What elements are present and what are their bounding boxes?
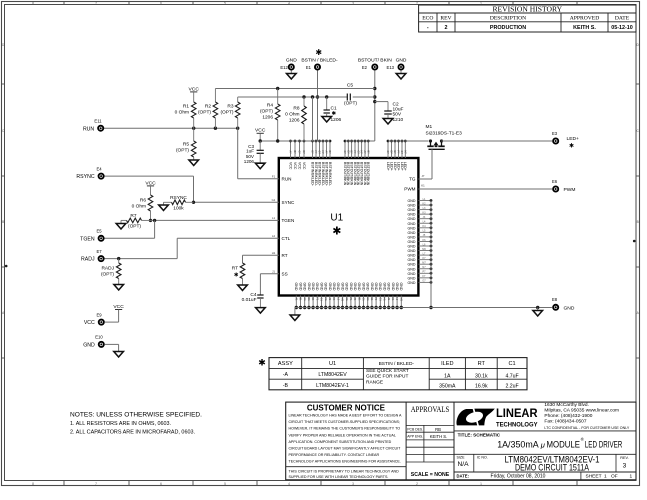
svg-text:J1: J1 xyxy=(272,270,275,274)
svg-text:GND: GND xyxy=(408,226,416,230)
svg-text:RT: RT xyxy=(282,253,288,258)
svg-text:HOWEVER, IT REMAINS THE CUSTOM: HOWEVER, IT REMAINS THE CUSTOMER'S RESPO… xyxy=(289,426,401,431)
ground symbol near E8 xyxy=(533,311,543,317)
svg-text:GND: GND xyxy=(340,283,344,291)
svg-text:R5: R5 xyxy=(183,142,189,148)
svg-text:GND: GND xyxy=(391,283,395,291)
svg-text:REVISION HISTORY: REVISION HISTORY xyxy=(492,4,562,13)
svg-text:LED DRIVER: LED DRIVER xyxy=(585,439,623,450)
svg-text:SCALE = NONE: SCALE = NONE xyxy=(411,472,450,478)
approvals box xyxy=(406,402,454,480)
svg-text:G1: G1 xyxy=(320,298,323,302)
svg-text:H1: H1 xyxy=(272,251,276,255)
svg-text:GND: GND xyxy=(408,231,416,235)
svg-text:GND: GND xyxy=(382,283,386,291)
svg-text:DATE: DATE xyxy=(615,16,630,22)
title row xyxy=(454,431,636,450)
svg-text:RSYNC: RSYNC xyxy=(76,174,94,180)
svg-text:350mA: 350mA xyxy=(439,383,456,389)
svg-text:GND: GND xyxy=(408,217,416,221)
svg-text:VCC: VCC xyxy=(302,162,306,170)
svg-text:BSTIN / BKLED-: BSTIN / BKLED- xyxy=(301,58,338,64)
wire riser BSTIN rail to pins xyxy=(312,97,314,141)
svg-text:SIZE: SIZE xyxy=(457,456,466,460)
wire LED+ rail to M1 xyxy=(388,140,429,142)
svg-text:50V: 50V xyxy=(246,154,255,159)
svg-text:GND: GND xyxy=(328,283,332,291)
svg-text:B: B xyxy=(2,220,4,224)
svg-text:SHEET: SHEET xyxy=(586,473,602,479)
svg-text:E11: E11 xyxy=(94,119,102,124)
ground symbol below E13 xyxy=(396,71,406,80)
svg-text:CUSTOMER NOTICE: CUSTOMER NOTICE xyxy=(307,404,386,413)
svg-text:Si2319DS-T1-E3: Si2319DS-T1-E3 xyxy=(426,131,463,137)
U1 right-side GND pins with stubs to ground bus xyxy=(408,198,433,285)
svg-text:✱: ✱ xyxy=(569,143,574,150)
svg-text:GND: GND xyxy=(83,342,95,348)
svg-text:M1: M1 xyxy=(426,124,433,130)
ground symbol below E10 xyxy=(114,352,124,358)
svg-text:BSTOUT/BKIN: BSTOUT/BKIN xyxy=(366,162,370,186)
svg-text:GND: GND xyxy=(378,283,382,291)
svg-text:LTM8042EV: LTM8042EV xyxy=(318,372,347,378)
Linear Technology logo xyxy=(456,408,538,428)
svg-text:KEITH S.: KEITH S. xyxy=(430,434,447,439)
svg-text:0.01uF: 0.01uF xyxy=(242,297,257,303)
svg-text:0 Ohm: 0 Ohm xyxy=(285,112,299,118)
svg-text:BSTOUT/ BKIN: BSTOUT/ BKIN xyxy=(358,58,392,64)
svg-text:GND: GND xyxy=(319,283,323,291)
resistor R5 (OPT) xyxy=(176,128,196,160)
U1 top pins (VCC, BSTIN/BKLED-, BSTOUT/BKIN, LED+) stubs xyxy=(288,140,407,187)
svg-text:REV.: REV. xyxy=(620,456,629,460)
part number row xyxy=(454,454,636,472)
ground symbol below RADJ xyxy=(114,285,124,291)
svg-text:VERIFY PROPER AND RELIABLE OPE: VERIFY PROPER AND RELIABLE OPERATION IN … xyxy=(289,432,397,437)
capacitor C4 0.01uF xyxy=(242,292,264,308)
svg-text:GND: GND xyxy=(311,283,315,291)
svg-text:8: 8 xyxy=(32,2,34,6)
resistor R2 (OPT) xyxy=(198,89,218,129)
svg-text:GND: GND xyxy=(298,283,302,291)
svg-text:1. ALL RESISTORS ARE IN OHMS,: 1. ALL RESISTORS ARE IN OHMS, 0603. xyxy=(70,421,171,427)
svg-text:4: 4 xyxy=(288,482,290,486)
svg-text:GND: GND xyxy=(303,283,307,291)
svg-text:1206: 1206 xyxy=(262,115,273,121)
svg-text:GND: GND xyxy=(357,283,361,291)
svg-text:E9: E9 xyxy=(96,312,102,317)
svg-text:APPROVALS: APPROVALS xyxy=(411,405,450,414)
wire ground bus to E8 xyxy=(536,306,539,311)
U1 pin F1 RUN (label) xyxy=(272,175,292,182)
svg-text:Fax: (408)434-0507: Fax: (408)434-0507 xyxy=(544,419,586,425)
svg-text:M1: M1 xyxy=(399,298,402,302)
svg-text:✱: ✱ xyxy=(234,272,239,279)
svg-text:BSTIN/BKLED-: BSTIN/BKLED- xyxy=(328,162,332,187)
notes text xyxy=(70,412,202,436)
svg-text:7: 7 xyxy=(95,2,97,6)
svg-text:GND: GND xyxy=(315,283,319,291)
svg-text:TGEN: TGEN xyxy=(282,218,295,223)
resistor RSYNC 100k xyxy=(164,195,194,211)
svg-text:16.9k: 16.9k xyxy=(475,383,488,389)
U1 pin L1 TGEN (label) xyxy=(272,216,294,223)
svg-text:DEMO CIRCUIT 1511A: DEMO CIRCUIT 1511A xyxy=(515,462,590,472)
svg-text:5: 5 xyxy=(224,482,226,486)
ground symbol below C1 xyxy=(322,117,332,123)
svg-text:GND: GND xyxy=(408,276,416,280)
assembly options table xyxy=(258,358,527,390)
svg-text:-: - xyxy=(427,25,429,31)
wire E1 down to BSTIN rail xyxy=(316,71,319,142)
svg-text:GND: GND xyxy=(408,208,416,212)
svg-text:✱: ✱ xyxy=(332,225,341,237)
svg-text:N/A: N/A xyxy=(458,461,470,468)
terminal E7 RADJ xyxy=(81,249,104,263)
svg-text:4: 4 xyxy=(288,2,290,6)
svg-text:E4: E4 xyxy=(96,166,102,171)
U1 pin L2 CTL (label) xyxy=(272,234,291,241)
svg-text:GND: GND xyxy=(399,283,403,291)
svg-text:100k: 100k xyxy=(173,205,184,211)
svg-text:KEITH S.: KEITH S. xyxy=(573,25,596,31)
wire BSTIN pins mini-rail xyxy=(260,140,331,142)
svg-text:2: 2 xyxy=(416,482,418,486)
resistor R1 0 Ohm xyxy=(175,102,196,128)
svg-text:2. ALL CAPACITORS ARE IN MICRO: 2. ALL CAPACITORS ARE IN MICROFARAD, 060… xyxy=(70,430,195,436)
ground symbol below C3 xyxy=(255,163,265,169)
svg-text:RADJ: RADJ xyxy=(81,257,95,263)
svg-text:1206: 1206 xyxy=(244,159,255,164)
svg-text:TGEN: TGEN xyxy=(80,236,95,242)
svg-text:GND: GND xyxy=(395,283,399,291)
resistor R8 0 Ohm 1206 xyxy=(285,97,306,141)
resistor R7 (OPT) xyxy=(121,213,151,229)
terminal E2 BSTOUT/BKIN xyxy=(358,58,392,71)
wire TGEN rail to pin xyxy=(151,219,279,222)
svg-text:30.1k: 30.1k xyxy=(475,374,488,380)
terminal E4 RSYNC xyxy=(76,166,103,180)
svg-text:LTM8042EV-1: LTM8042EV-1 xyxy=(316,383,349,389)
svg-text:-B: -B xyxy=(283,383,289,389)
svg-text:GND: GND xyxy=(353,283,357,291)
svg-text:ILED: ILED xyxy=(441,361,453,367)
svg-text:R8: R8 xyxy=(293,106,299,112)
svg-text:LINEAR TECHNOLOGY HAS MADE A B: LINEAR TECHNOLOGY HAS MADE A BEST EFFORT… xyxy=(289,413,402,418)
svg-text:VCC: VCC xyxy=(297,162,301,170)
svg-text:1: 1 xyxy=(604,473,607,479)
svg-text:RT: RT xyxy=(478,361,486,367)
svg-text:LED+: LED+ xyxy=(393,162,397,171)
svg-text:CTL: CTL xyxy=(282,236,291,241)
svg-text:RSYNC: RSYNC xyxy=(170,195,187,201)
svg-text:C1: C1 xyxy=(509,361,516,367)
capacitor C1 1206 xyxy=(324,97,342,123)
svg-text:0 Ohm: 0 Ohm xyxy=(175,110,189,116)
svg-text:Phone: (408)432-1900: Phone: (408)432-1900 xyxy=(544,413,592,419)
svg-text:G7: G7 xyxy=(318,151,321,155)
svg-text:GND: GND xyxy=(408,245,416,249)
U1 pin J1 SS (label) xyxy=(272,270,288,277)
svg-text:GND: GND xyxy=(564,305,575,311)
wire SS pin to C4 xyxy=(260,274,278,295)
svg-text:E8: E8 xyxy=(552,297,558,302)
resistor RT xyxy=(232,263,245,285)
svg-text:6: 6 xyxy=(160,2,162,6)
svg-text:VCC: VCC xyxy=(293,162,297,170)
wire RT pin to resistor xyxy=(243,255,279,263)
svg-text:GND: GND xyxy=(396,58,407,64)
svg-text:3: 3 xyxy=(352,482,354,486)
svg-text:R7: R7 xyxy=(130,213,136,219)
svg-text:E7: E7 xyxy=(96,249,102,254)
svg-text:REV: REV xyxy=(440,16,451,22)
svg-text:GND: GND xyxy=(332,283,336,291)
svg-text:PWM: PWM xyxy=(564,187,576,193)
svg-text:E13: E13 xyxy=(387,65,395,70)
terminal E10 GND xyxy=(83,335,104,349)
svg-text:4.7uF: 4.7uF xyxy=(505,374,518,380)
address block xyxy=(544,402,630,430)
wire M1 drain to E3 xyxy=(442,140,553,142)
svg-text:1206: 1206 xyxy=(331,117,342,123)
svg-text:MODULE: MODULE xyxy=(547,439,581,450)
svg-text:M7: M7 xyxy=(422,262,426,265)
svg-text:GND: GND xyxy=(345,283,349,291)
svg-text:SYNC: SYNC xyxy=(282,200,295,205)
svg-text:GND: GND xyxy=(408,222,416,226)
ground symbol below C4 xyxy=(256,308,266,314)
svg-text:PWM: PWM xyxy=(404,187,415,192)
terminal E1 BSTIN/BKLED- xyxy=(301,48,338,70)
svg-text:GND: GND xyxy=(408,199,416,203)
svg-text:R2: R2 xyxy=(205,104,211,110)
terminal E8 GND xyxy=(552,297,575,311)
terminal E5 TGEN xyxy=(80,229,103,243)
IC U1 LTM8042 module outline xyxy=(279,158,419,296)
ground symbol below C2 xyxy=(383,119,393,125)
svg-text:6: 6 xyxy=(160,482,162,486)
svg-text:2: 2 xyxy=(416,2,418,6)
svg-text:GND: GND xyxy=(408,267,416,271)
svg-text:RB: RB xyxy=(435,427,441,432)
svg-text:R4: R4 xyxy=(267,103,273,109)
svg-text:R1: R1 xyxy=(183,104,189,110)
VCC symbol above R1 xyxy=(189,86,200,102)
svg-text:VCC: VCC xyxy=(288,162,292,170)
svg-text:5: 5 xyxy=(224,2,226,6)
svg-text:PRODUCTION: PRODUCTION xyxy=(490,25,526,31)
ground bus bottom xyxy=(295,307,552,309)
svg-text:J7: J7 xyxy=(422,174,425,178)
svg-text:3: 3 xyxy=(352,2,354,6)
customer notice box xyxy=(286,402,406,480)
svg-text:GND: GND xyxy=(408,213,416,217)
svg-text:(OPT): (OPT) xyxy=(176,148,189,154)
svg-text:E3: E3 xyxy=(552,131,558,136)
svg-text:1630 McCarthy Blvd.: 1630 McCarthy Blvd. xyxy=(544,402,589,408)
svg-text:L1: L1 xyxy=(272,216,276,220)
svg-text:SUPPLIED FOR USE WITH LINEAR T: SUPPLIED FOR USE WITH LINEAR TECHNOLOGY … xyxy=(289,474,389,479)
svg-text:BSTIN/BKLED-: BSTIN/BKLED- xyxy=(324,162,328,187)
svg-text:BSTOUT/BKIN: BSTOUT/BKIN xyxy=(350,162,354,186)
svg-text:Milpitas, CA 95035 www.linear: Milpitas, CA 95035 www.linear.com xyxy=(544,408,619,414)
svg-text:TG: TG xyxy=(409,177,416,182)
svg-text:(OPT): (OPT) xyxy=(344,101,357,107)
terminal E6 PWM xyxy=(552,179,576,193)
svg-text:7: 7 xyxy=(95,482,97,486)
svg-text:APPLICATION. COMPONENT SUBSTI: APPLICATION. COMPONENT SUBSTITUTION AND … xyxy=(289,439,392,444)
U1 pin H1 RT (label) xyxy=(272,251,288,258)
svg-text:VCC: VCC xyxy=(84,320,95,326)
svg-text:1A: 1A xyxy=(444,374,451,380)
svg-text:R6: R6 xyxy=(140,198,146,204)
terminal E9 VCC xyxy=(84,312,104,326)
svg-text:50V: 50V xyxy=(393,112,402,118)
svg-text:GND: GND xyxy=(374,283,378,291)
svg-text:8: 8 xyxy=(32,482,34,486)
wire M1 gate to TG pin xyxy=(418,149,432,179)
svg-text:CIRCUIT BOARD LAYOUT MAY SIGNI: CIRCUIT BOARD LAYOUT MAY SIGNIFICANTLY A… xyxy=(289,445,401,450)
svg-text:1206: 1206 xyxy=(289,118,300,124)
svg-text:LINEAR: LINEAR xyxy=(496,408,538,420)
svg-text:GND: GND xyxy=(294,283,298,291)
svg-text:APP ENG.: APP ENG. xyxy=(407,435,423,439)
svg-text:BSTIN/BKLED-: BSTIN/BKLED- xyxy=(317,162,321,187)
svg-text:1: 1 xyxy=(630,473,633,479)
svg-text:U1: U1 xyxy=(329,361,336,367)
svg-text:0 Ohm: 0 Ohm xyxy=(132,204,146,210)
svg-text:1: 1 xyxy=(480,482,482,486)
svg-text:RUN: RUN xyxy=(83,126,94,132)
svg-text:F1: F1 xyxy=(272,175,276,179)
svg-text:B: B xyxy=(637,220,639,224)
svg-text:IC NO.: IC NO. xyxy=(477,456,488,460)
U1 pin K1 PWM (label) xyxy=(404,184,425,192)
svg-text:BSTIN/BKLED-: BSTIN/BKLED- xyxy=(310,162,314,187)
resistor R6 0 Ohm xyxy=(132,195,153,222)
svg-text:LED+: LED+ xyxy=(389,162,393,171)
svg-text:TECHNOLOGY: TECHNOLOGY xyxy=(496,422,538,429)
VCC symbol above E9 wire xyxy=(105,304,125,322)
svg-text:DATE:: DATE: xyxy=(457,473,469,478)
terminal E11 RUN xyxy=(83,119,103,133)
svg-text:BSTIN/BKLED-: BSTIN/BKLED- xyxy=(321,162,325,187)
svg-text:GUIDE FOR INPUT: GUIDE FOR INPUT xyxy=(366,374,408,380)
svg-text:E6: E6 xyxy=(552,179,558,184)
svg-text:OF: OF xyxy=(611,473,618,479)
svg-text:GND: GND xyxy=(349,283,353,291)
wire BSTOUT pins mini-rail xyxy=(345,140,375,142)
svg-text:μ: μ xyxy=(540,440,545,449)
svg-text:ASSY: ASSY xyxy=(278,361,293,367)
svg-text:CIRCUIT THAT MEETS CUSTOMER-SU: CIRCUIT THAT MEETS CUSTOMER-SUPPLIED SPE… xyxy=(289,419,401,424)
svg-text:3: 3 xyxy=(623,463,627,470)
wire RUN net rail from E11 xyxy=(104,127,279,179)
svg-text:BSTIN/BKLED-: BSTIN/BKLED- xyxy=(314,162,318,187)
svg-text:Friday, October 08, 2010: Friday, October 08, 2010 xyxy=(491,473,546,479)
ground symbol below RT xyxy=(238,285,248,291)
svg-text:THIS CIRCUIT IS PROPRIETARY TO: THIS CIRCUIT IS PROPRIETARY TO LINEAR TE… xyxy=(289,468,399,473)
svg-text:G1: G1 xyxy=(272,198,276,202)
svg-text:RANGE: RANGE xyxy=(366,379,383,385)
svg-text:GND: GND xyxy=(408,204,416,208)
revision history table xyxy=(419,4,636,32)
svg-text:GND: GND xyxy=(336,283,340,291)
svg-text:E1: E1 xyxy=(306,65,312,70)
svg-text:RUN: RUN xyxy=(282,176,292,181)
VCC symbol above R6 xyxy=(145,180,156,195)
U1 pin J7 TG (label) xyxy=(409,174,425,182)
svg-text:LED+: LED+ xyxy=(403,162,407,171)
svg-text:✱: ✱ xyxy=(258,358,266,368)
svg-text:TECHNOLOGY APPLICATIONS ENGINE: TECHNOLOGY APPLICATIONS ENGINEERING FOR … xyxy=(289,458,401,463)
transistor M1 Si2319DS-T1-E3 PMOS xyxy=(426,124,463,149)
svg-text:C5: C5 xyxy=(347,83,353,89)
svg-text:-A: -A xyxy=(283,372,289,378)
svg-text:GND: GND xyxy=(408,240,416,244)
svg-text:(OPT): (OPT) xyxy=(101,272,114,278)
wire E4 to SYNC pin xyxy=(105,176,279,204)
svg-text:(OPT): (OPT) xyxy=(198,110,211,116)
svg-text:GND: GND xyxy=(408,281,416,285)
svg-text:E5: E5 xyxy=(96,229,102,234)
svg-text:GND: GND xyxy=(324,283,328,291)
svg-text:05-12-10: 05-12-10 xyxy=(611,25,633,31)
svg-text:LED+: LED+ xyxy=(567,136,580,142)
svg-text:(OPT): (OPT) xyxy=(260,109,273,115)
svg-text:RT: RT xyxy=(232,266,238,272)
svg-text:TITLE: SCHEMATIC: TITLE: SCHEMATIC xyxy=(458,432,501,437)
svg-text:(OPT): (OPT) xyxy=(128,224,141,230)
svg-text:R3: R3 xyxy=(227,104,233,110)
ground symbol left of RSYNC xyxy=(159,202,169,210)
svg-text:GND: GND xyxy=(307,283,311,291)
capacitor C5 (OPT) inline xyxy=(344,83,357,107)
wire rail BSTIN node (R3-R8-E1-C1-C5-E2) xyxy=(238,95,375,98)
terminal E13 GND xyxy=(387,58,407,71)
ground symbol left of R7 xyxy=(116,220,126,229)
svg-text:SEE QUICK START: SEE QUICK START xyxy=(366,368,409,374)
svg-text:✱: ✱ xyxy=(315,48,322,57)
capacitor C2 10uF 50V 1210 xyxy=(375,102,404,124)
svg-text:GND: GND xyxy=(408,258,416,262)
svg-text:LTC CONFIDENTIAL - FOR CUSTOME: LTC CONFIDENTIAL - FOR CUSTOMER USE ONLY xyxy=(544,426,630,430)
svg-text:PCB DES.: PCB DES. xyxy=(407,428,423,432)
wire E2 down to BSTOUT rail xyxy=(373,71,376,142)
svg-text:E12: E12 xyxy=(280,65,288,70)
capacitor C3 1uF 50V 1206 xyxy=(244,141,264,164)
svg-text:GND: GND xyxy=(286,57,297,63)
svg-text:LED+: LED+ xyxy=(386,162,390,171)
svg-text:GND: GND xyxy=(366,283,370,291)
svg-text:NOTES: UNLESS OTHERWISE SPECIF: NOTES: UNLESS OTHERWISE SPECIFIED. xyxy=(70,412,202,419)
terminal E3 LED+ xyxy=(552,131,579,149)
svg-text:SS: SS xyxy=(282,271,288,276)
svg-text:GND: GND xyxy=(408,272,416,276)
U1 bottom GND pins with stubs to ground bus xyxy=(294,283,403,310)
ground symbol at bottom bus left xyxy=(290,308,300,321)
svg-text:BSTOUT/BKIN: BSTOUT/BKIN xyxy=(360,162,364,186)
svg-text:GND: GND xyxy=(370,283,374,291)
wire right GND vertical bus xyxy=(429,201,432,310)
ground symbol below E12 xyxy=(287,71,297,80)
resistor R3 (OPT) xyxy=(220,97,240,128)
svg-text:GND: GND xyxy=(408,235,416,239)
svg-text:RADJ: RADJ xyxy=(101,266,114,272)
svg-text:ECO: ECO xyxy=(422,16,433,22)
svg-text:E10: E10 xyxy=(95,335,103,340)
